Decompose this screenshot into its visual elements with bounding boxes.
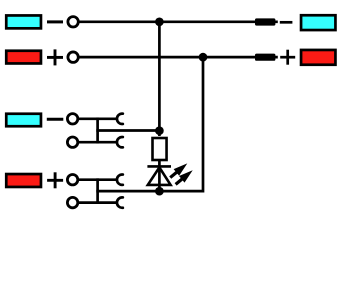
marker label cyan right row1 <box>301 15 335 30</box>
wire vertical from node A to resistor <box>158 22 161 136</box>
bus marker black row1 <box>255 18 275 25</box>
wire group upper row <box>79 117 118 120</box>
wire group middle branch <box>96 190 203 193</box>
LED light arrow 2 <box>179 170 193 182</box>
terminal circle row2 <box>68 52 78 62</box>
terminal circle group lower <box>67 197 77 207</box>
minus sign group <box>47 118 64 121</box>
wire resistor to LED and through <box>158 160 161 191</box>
wire group lower row <box>79 141 118 144</box>
marker label red left row2 <box>6 51 41 64</box>
tension clamp lower <box>117 137 123 147</box>
tension clamp upper <box>117 114 123 124</box>
plus sign row2 right <box>280 56 295 59</box>
wire group upper row <box>79 178 118 181</box>
LED light arrow 1 <box>174 163 188 175</box>
plus sign group <box>47 179 63 182</box>
junction node D (LED bottom) <box>155 187 164 196</box>
wire row2 horizontal <box>79 56 278 59</box>
wire vertical node B down <box>202 57 205 192</box>
minus sign row1 left <box>47 20 63 23</box>
marker label red left group <box>6 174 41 187</box>
plus sign row2 left <box>47 56 63 59</box>
wire group vertical bar <box>96 178 99 204</box>
junction node B <box>199 53 208 62</box>
LED triangle (anode) <box>148 167 171 185</box>
terminal circle row1 <box>68 17 78 27</box>
resistor R <box>153 138 167 160</box>
LED cathode bar <box>147 165 171 168</box>
marker label cyan left group <box>6 114 41 127</box>
junction node A <box>155 17 164 26</box>
tension clamp upper <box>117 175 123 185</box>
wire group middle branch <box>96 129 159 132</box>
marker label cyan left row1 <box>6 15 41 28</box>
terminal circle group lower <box>67 137 77 147</box>
wire group lower row <box>79 201 118 204</box>
wire row1 horizontal <box>79 20 278 23</box>
terminal circle group upper <box>67 114 77 124</box>
junction node C (resistor top) <box>155 126 164 135</box>
bus marker black row2 <box>255 54 275 61</box>
tension clamp lower <box>117 197 123 207</box>
marker label red right row2 <box>301 50 335 65</box>
terminal circle group upper <box>67 175 77 185</box>
minus sign row1 right <box>280 21 293 24</box>
wire group vertical bar <box>96 117 99 143</box>
